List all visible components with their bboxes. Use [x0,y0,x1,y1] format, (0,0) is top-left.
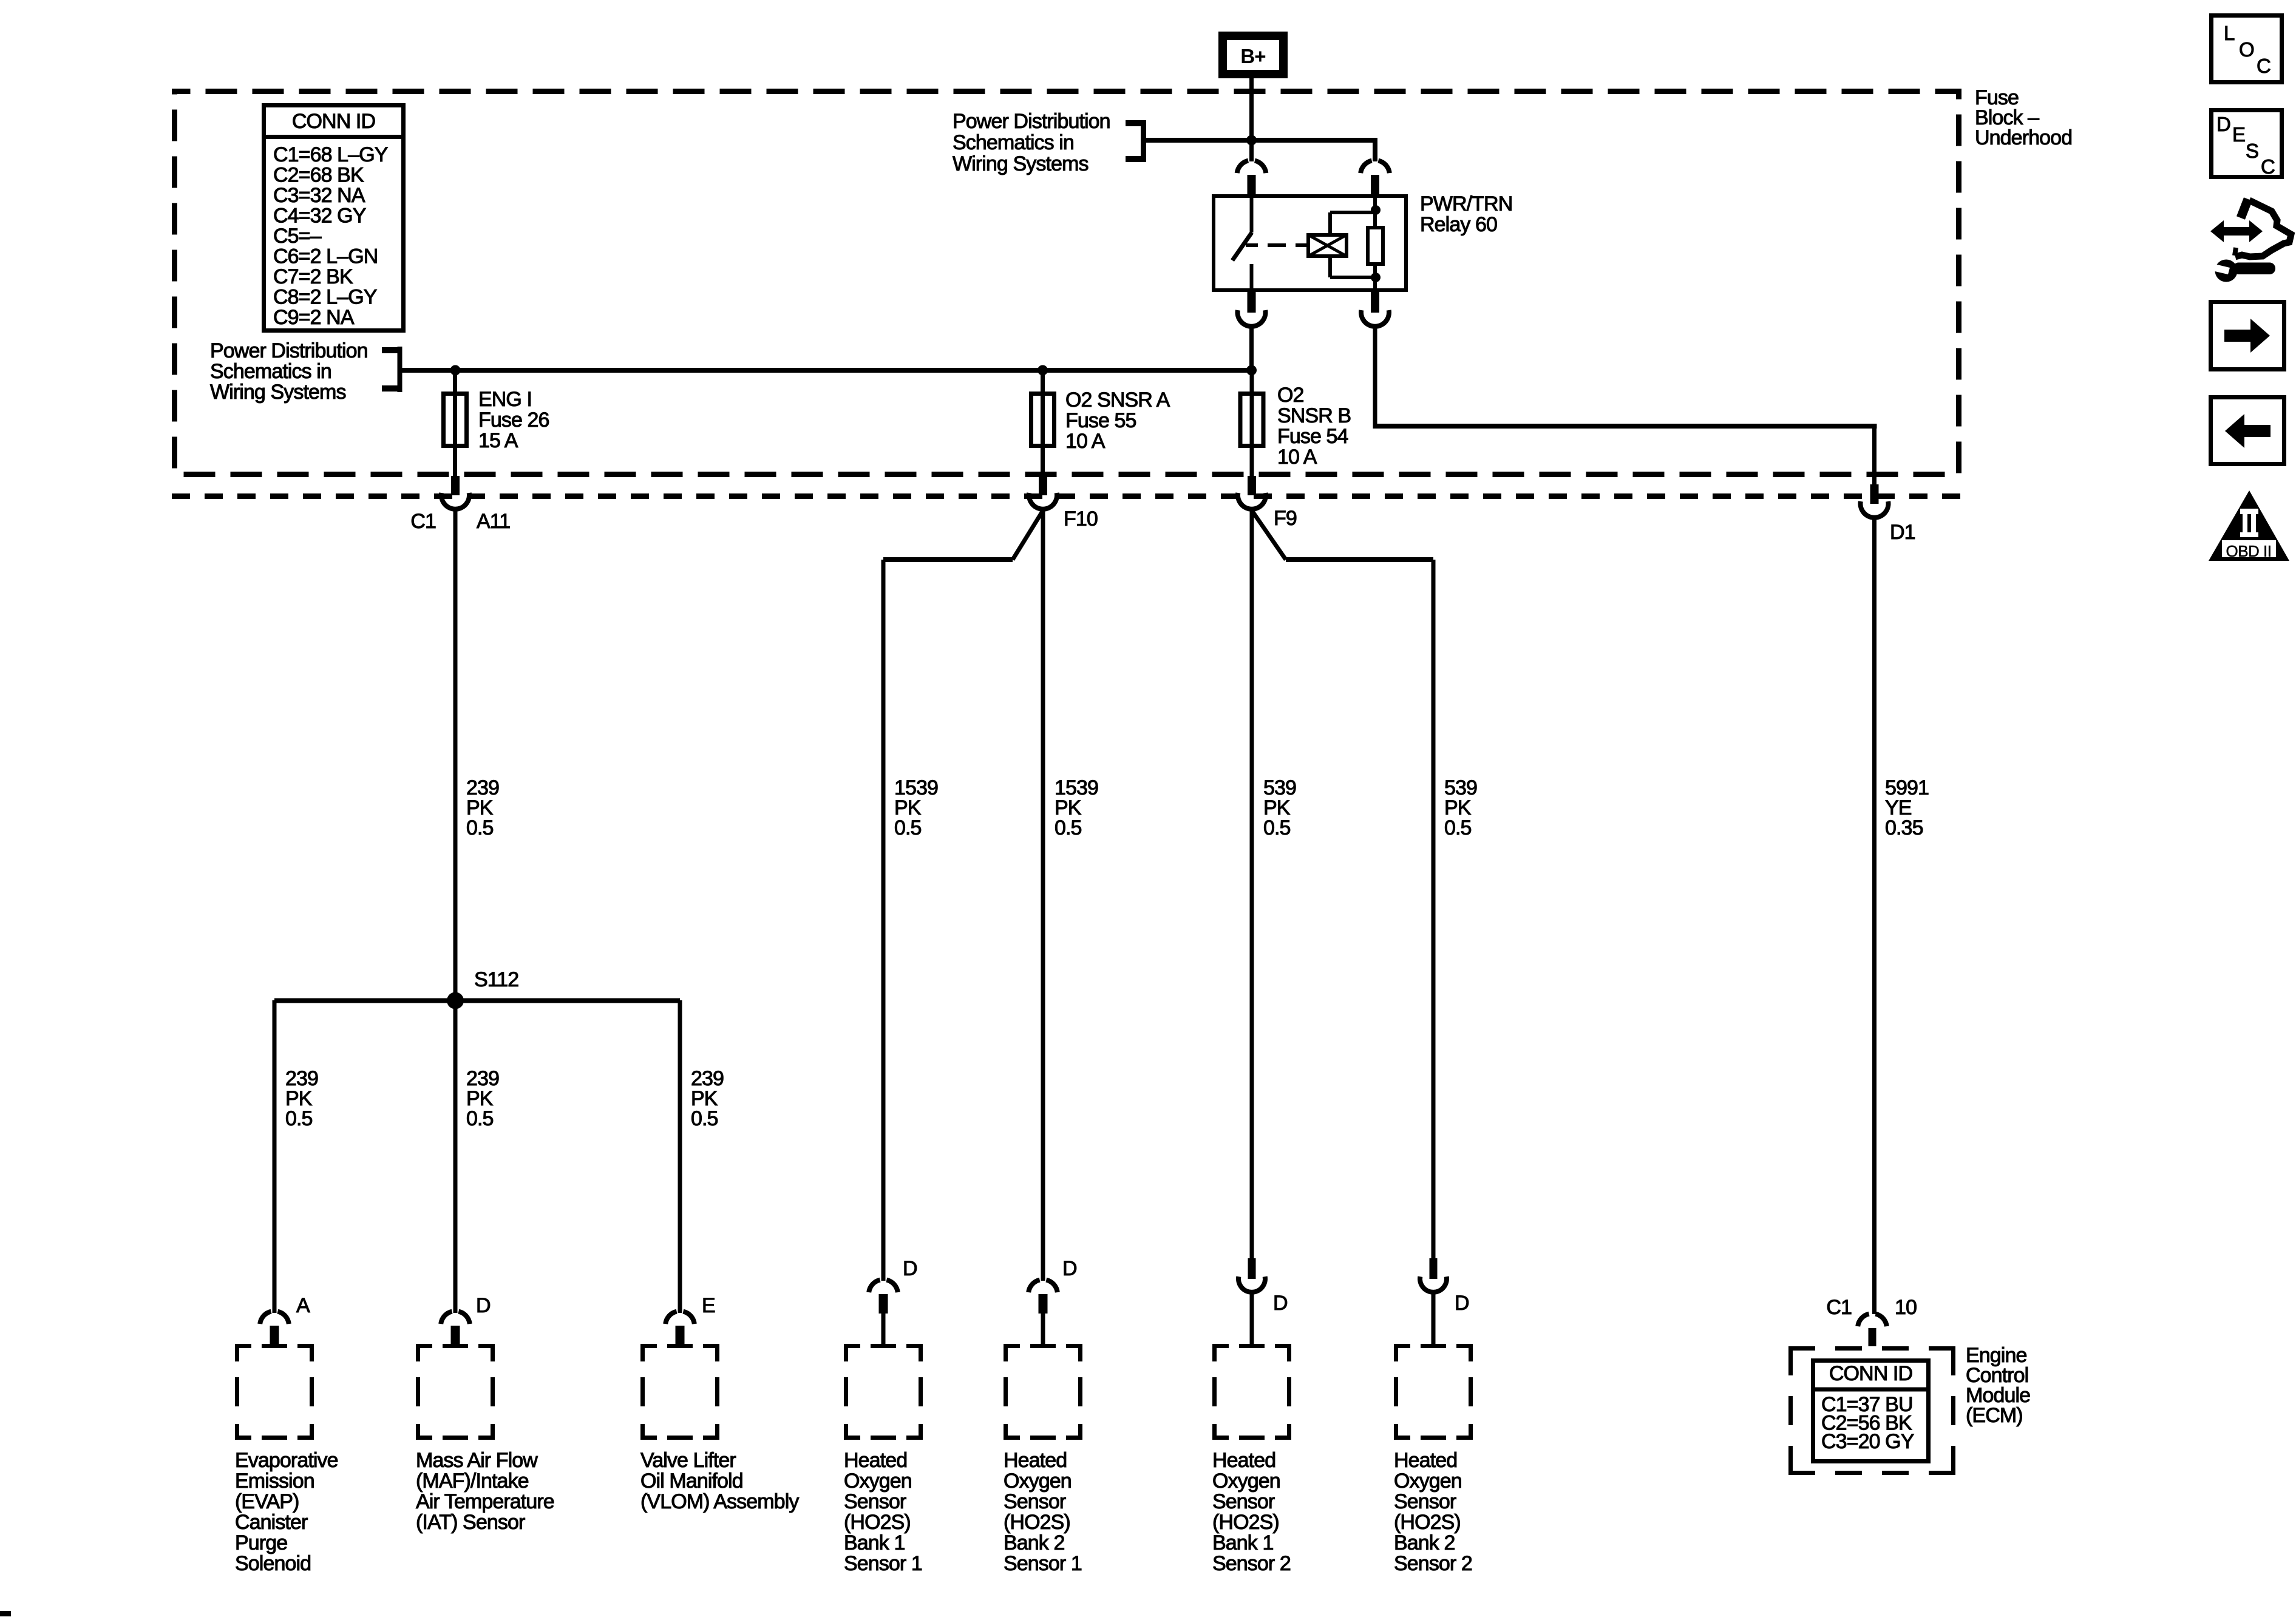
connector table CONN ID (fuse block) [264,106,404,331]
svg-text:L: L [2224,22,2235,44]
svg-text:Relay 60: Relay 60 [1420,213,1497,236]
svg-text:Fuse 55: Fuse 55 [1065,409,1136,432]
connector C1 pin 10 at ECM - dome [1858,1314,1869,1327]
svg-text:F9: F9 [1274,507,1297,530]
svg-text:0.5: 0.5 [285,1107,313,1130]
wire through fuse 55 [1041,370,1045,476]
svg-text:(HO2S): (HO2S) [1394,1511,1461,1534]
svg-text:Fuse 26: Fuse 26 [478,408,549,432]
wire: relay pin 85 down and right to D1 [1373,327,1377,429]
fuse bus wire [402,368,1254,373]
svg-text:(MAF)/Intake: (MAF)/Intake [416,1470,529,1493]
wire: B+ down to relay terminal [1249,78,1254,161]
fuse ENG I Fuse 26 15 A [444,394,467,446]
svg-text:Purge: Purge [235,1531,287,1554]
svg-text:D: D [1273,1292,1288,1315]
svg-text:S: S [2246,140,2258,162]
svg-text:0.5: 0.5 [894,816,922,839]
relay actuator dashed link [1246,243,1258,247]
relay connector pin 86 (top right) - dome [1360,161,1371,174]
svg-text:Air Temperature: Air Temperature [416,1490,554,1513]
svg-text:ENG I: ENG I [478,388,532,411]
stray scan mark [0,1611,11,1616]
svg-text:E: E [702,1294,715,1317]
icon OBD II triangle [2209,490,2289,561]
svg-text:S112: S112 [474,968,518,991]
component box: HO2S bank 1 sensor 2 [1212,1344,1229,1348]
svg-text:Schematics in: Schematics in [953,131,1074,154]
connector A at EVAP solenoid - dome [260,1312,271,1324]
svg-text:Sensor: Sensor [1212,1490,1275,1513]
svg-text:C3=20 GY: C3=20 GY [1821,1430,1914,1453]
component box: HO2S bank 1 sensor 1 [844,1344,860,1348]
svg-text:Canister: Canister [235,1511,308,1534]
svg-text:A11: A11 [477,510,510,533]
relay pin 87 (bottom left) - stub and cup [1248,292,1256,313]
connector F9 - stub and cup [1248,476,1256,495]
svg-text:0.5: 0.5 [1055,816,1082,839]
svg-text:C1: C1 [1826,1296,1852,1319]
wire through fuse 54 [1250,370,1254,476]
connector D at MAF/IAT sensor - dome [441,1312,452,1324]
svg-text:SNSR B: SNSR B [1277,404,1351,427]
component box: EVAP canister purge solenoid [235,1344,251,1348]
svg-text:PWR/TRN: PWR/TRN [1420,192,1512,215]
svg-text:Heated: Heated [1004,1449,1067,1472]
svg-text:15 A: 15 A [478,429,518,452]
icon back arrow box [2211,398,2284,464]
svg-text:D: D [1062,1257,1077,1280]
wire 239 PK 0.5 (C1 A11 to S112) [453,509,458,1000]
junction node at fuse 55 [1038,365,1048,376]
svg-text:A: A [296,1294,310,1317]
svg-text:Mass Air Flow: Mass Air Flow [416,1449,538,1472]
svg-text:0.5: 0.5 [691,1107,718,1130]
dotted harness separator line [172,493,1961,499]
svg-text:Wiring Systems: Wiring Systems [210,381,346,404]
svg-text:D1: D1 [1890,521,1915,544]
svg-text:C8=2 L–GY: C8=2 L–GY [273,286,377,309]
relay coil box with X [1308,235,1347,256]
svg-text:CONN ID: CONN ID [1829,1362,1912,1385]
svg-text:10 A: 10 A [1065,430,1106,453]
svg-text:OBD II: OBD II [2226,542,2271,560]
wire 1539 PK 0.5 (F10 straight to HO2S bank2 sensor1) [1041,509,1045,1281]
svg-text:10: 10 [1895,1296,1917,1319]
svg-text:Heated: Heated [844,1449,907,1472]
svg-text:Valve Lifter: Valve Lifter [640,1449,736,1472]
svg-text:C1=68 L–GY: C1=68 L–GY [273,143,388,166]
ECM dashed box [1788,1346,1815,1351]
svg-text:0.35: 0.35 [1885,816,1923,839]
svg-text:Sensor 1: Sensor 1 [844,1552,922,1575]
junction node: coil/resistor bottom [1371,273,1381,282]
svg-text:Schematics in: Schematics in [210,360,331,383]
svg-text:(ECM): (ECM) [1966,1404,2023,1427]
battery feed terminal B+ [1223,36,1283,74]
svg-text:Evaporative: Evaporative [235,1449,338,1472]
junction node: B+ wire / power distribution feed [1246,135,1257,146]
svg-text:D: D [903,1257,917,1280]
wire 5991 YE 0.35 (D1 to ECM) [1872,518,1877,1314]
bracket for left power distribution reference [398,347,402,392]
svg-text:Fuse 54: Fuse 54 [1277,425,1348,448]
svg-text:Heated: Heated [1394,1449,1457,1472]
svg-text:Sensor 2: Sensor 2 [1212,1552,1291,1575]
wire 239 PK 0.5 branch E (to VLOM) [678,1000,682,1313]
svg-text:Bank 1: Bank 1 [1212,1531,1273,1554]
svg-text:Sensor 1: Sensor 1 [1004,1552,1082,1575]
svg-text:C3=32 NA: C3=32 NA [273,184,365,207]
svg-text:C: C [2257,55,2271,77]
connector C1 A11 - stub and cup [451,476,460,495]
svg-text:O: O [2239,38,2254,61]
svg-text:10 A: 10 A [1277,446,1317,469]
svg-text:Wiring Systems: Wiring Systems [953,152,1089,175]
icon LOC box [2212,16,2282,83]
svg-text:C7=2 BK: C7=2 BK [273,265,353,288]
svg-text:Oil Manifold: Oil Manifold [640,1470,743,1493]
fuse O2 SNSR B Fuse 54 10 A [1240,394,1263,446]
svg-text:Oxygen: Oxygen [1394,1470,1462,1493]
svg-text:C5=–: C5=– [273,225,322,248]
wire through fuse ENG I [453,370,457,476]
relay connector pin 30 (top left) - dome [1237,161,1248,174]
wire 539 PK 0.5 (F9 to HO2S bank2 sensor2) with jog [1252,510,1286,560]
svg-text:0.5: 0.5 [466,816,494,839]
svg-text:Bank 1: Bank 1 [844,1531,905,1554]
svg-text:(HO2S): (HO2S) [1004,1511,1070,1534]
connector F10 - stub and cup [1039,476,1047,495]
connector D1 - stub and cup [1870,484,1879,504]
junction node at fuse 54 [1246,365,1257,376]
svg-text:D: D [1455,1292,1469,1315]
svg-text:C2=68 BK: C2=68 BK [273,164,364,187]
icon power-flow with wrench [2210,220,2263,242]
svg-text:Sensor: Sensor [1394,1490,1456,1513]
svg-text:D: D [2216,113,2230,135]
icon DESC box [2212,110,2282,177]
wire 239 PK 0.5 branch D (to MAF/IAT) [453,1000,458,1313]
svg-text:Emission: Emission [235,1470,314,1493]
svg-text:O2 SNSR A: O2 SNSR A [1065,388,1170,412]
svg-text:C4=32 GY: C4=32 GY [273,205,366,228]
connector E at VLOM assembly - dome [665,1312,676,1324]
junction node: coil/resistor top [1371,205,1381,215]
svg-text:O2: O2 [1277,384,1304,407]
svg-text:Solenoid: Solenoid [235,1552,311,1575]
svg-text:Underhood: Underhood [1975,126,2072,149]
component box: VLOM assembly [640,1344,657,1348]
svg-text:Power Distribution: Power Distribution [953,110,1110,133]
wire: relay pin 87 down to fuse bus [1249,327,1254,368]
svg-text:Sensor: Sensor [844,1490,906,1513]
connector D at HO2S bank2 sensor1 - dome [1028,1280,1039,1293]
wire: power distribution feed line to relay coil terminal [1146,138,1377,143]
bracket for top power distribution reference [1141,120,1146,162]
svg-text:D: D [476,1294,491,1317]
svg-text:CONN ID: CONN ID [292,110,375,133]
svg-text:Oxygen: Oxygen [844,1470,912,1493]
ECM CONN ID table [1813,1361,1929,1462]
svg-text:(HO2S): (HO2S) [1212,1511,1279,1534]
icon forward arrow box [2211,302,2284,370]
svg-text:B+: B+ [1240,45,1265,67]
component box: HO2S bank 2 sensor 2 [1394,1344,1410,1348]
svg-text:Power Distribution: Power Distribution [210,339,368,362]
svg-text:(HO2S): (HO2S) [844,1511,911,1534]
svg-text:C: C [2261,155,2275,178]
svg-text:Oxygen: Oxygen [1212,1470,1280,1493]
relay coil wiring to resistor branch [1328,212,1332,233]
fuse block - underhood dashed boundary box [175,92,1959,475]
relay resistor [1373,194,1377,226]
component box: HO2S bank 2 sensor 1 [1004,1344,1020,1348]
svg-text:Oxygen: Oxygen [1004,1470,1072,1493]
connector D at HO2S bank1 sensor2 - stub and cup [1248,1258,1256,1279]
junction node at fuse ENG I [450,365,461,376]
svg-text:0.5: 0.5 [1263,816,1291,839]
relay switch (left half) [1250,194,1254,232]
svg-text:Bank 2: Bank 2 [1004,1531,1064,1554]
relay U60 PWR/TRN box [1214,196,1406,290]
svg-text:C9=2 NA: C9=2 NA [273,306,355,329]
svg-text:0.5: 0.5 [1444,816,1472,839]
connector D at HO2S bank2 sensor2 - stub and cup [1430,1258,1438,1279]
svg-text:Bank 2: Bank 2 [1394,1531,1455,1554]
svg-text:0.5: 0.5 [466,1107,494,1130]
connector D at HO2S bank1 sensor1 - dome [869,1280,880,1293]
svg-text:Sensor 2: Sensor 2 [1394,1552,1472,1575]
relay pin 85 (bottom right) - stub and cup [1371,292,1379,313]
svg-text:C6=2 L–GN: C6=2 L–GN [273,245,378,268]
svg-text:Sensor: Sensor [1004,1490,1066,1513]
svg-text:C1: C1 [410,510,436,533]
fuse O2 SNSR A Fuse 55 10 A [1031,394,1055,446]
wire 539 PK 0.5 (F9 straight to HO2S bank1 sensor2) [1250,509,1254,1259]
wire 239 PK 0.5 branch A (to EVAP) [273,1000,277,1313]
splice branch wire [274,998,680,1003]
splice S112 [447,992,464,1009]
svg-text:(EVAP): (EVAP) [235,1490,299,1513]
wire 1539 PK 0.5 (F10 to HO2S bank1 sensor1) with jog [1013,510,1043,560]
svg-text:Heated: Heated [1212,1449,1275,1472]
svg-text:(VLOM) Assembly: (VLOM) Assembly [640,1490,799,1513]
svg-text:(IAT) Sensor: (IAT) Sensor [416,1511,525,1534]
svg-text:F10: F10 [1064,507,1098,531]
component box: MAF/IAT sensor [416,1344,432,1348]
svg-text:E: E [2232,123,2245,146]
